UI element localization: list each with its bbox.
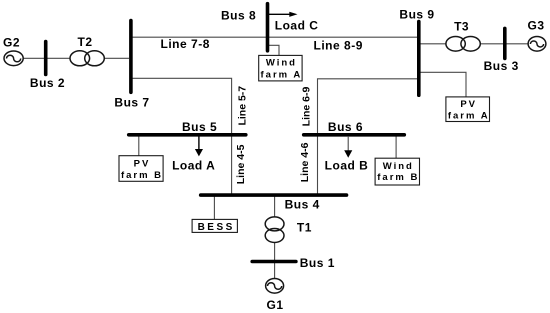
box wind farm A [259,55,303,81]
wire bus 9 to PV farm A [419,72,466,97]
svg-text:Bus 2: Bus 2 [30,76,65,90]
transformer T3 [446,37,480,52]
svg-text:Line 5-7: Line 5-7 [236,86,248,126]
wire bus 4 to BESS [213,195,215,219]
svg-text:Load A: Load A [172,159,215,173]
bus 3 [503,28,507,58]
svg-text:Line 6-9: Line 6-9 [301,87,313,127]
bus 6 [304,133,405,137]
bus 8 [266,4,270,51]
svg-text:Bus 1: Bus 1 [300,256,335,270]
svg-text:Line 7-8: Line 7-8 [161,37,210,51]
svg-text:Bus 3: Bus 3 [484,59,519,73]
generator G2 [4,51,23,66]
load A arrow [195,136,203,156]
svg-text:farm B: farm B [377,172,419,183]
wire T3 to bus 3 [480,43,503,45]
bus 1 [252,260,296,264]
wire line 4-5 [231,135,233,195]
svg-text:Line 4-6: Line 4-6 [299,142,311,182]
svg-text:G2: G2 [3,36,20,50]
svg-text:T1: T1 [297,221,312,235]
bus 2 [44,42,48,75]
box wind farm B [375,158,419,185]
svg-text:G1: G1 [266,298,283,312]
wire bus 4 to T1 [274,195,276,217]
svg-text:Bus 4: Bus 4 [285,198,320,212]
svg-text:T2: T2 [77,35,92,49]
svg-text:Bus 7: Bus 7 [114,95,149,109]
wire bus 6 to wind farm B [395,135,397,158]
box PV farm B [119,156,163,182]
wire bus 2 to T2 [47,57,70,59]
wire bus 9 to T3 [419,43,446,45]
svg-text:BESS: BESS [198,222,235,233]
svg-text:Load B: Load B [325,159,369,173]
svg-text:G3: G3 [527,19,544,33]
load B arrow [344,136,352,158]
wire bus 5 to PV farm B [138,135,140,156]
generator G3 [528,37,546,52]
svg-text:Line 8-9: Line 8-9 [314,38,363,52]
svg-text:farm A: farm A [261,69,303,80]
svg-text:Bus 6: Bus 6 [328,120,363,134]
svg-text:farm A: farm A [448,110,490,121]
transformer T2 [70,51,104,66]
wire T1 to G1 through bus 1 [274,242,276,279]
svg-text:Line 4-5: Line 4-5 [235,144,247,184]
wire bus 3 to G3 [507,43,529,45]
svg-text:farm B: farm B [121,170,163,181]
bus 7 [129,21,133,93]
bus 4 [201,193,347,197]
svg-text:Wind: Wind [266,58,297,69]
svg-text:Bus 5: Bus 5 [182,120,217,134]
svg-text:Bus 8: Bus 8 [221,9,256,23]
generator G1 [266,279,284,294]
wire line 5-7 [131,78,232,134]
wire line 6-9 [318,79,419,134]
svg-text:PV: PV [134,159,151,170]
transformer T1 [265,217,284,243]
svg-text:Wind: Wind [383,161,414,172]
wire G2 to bus 2 [24,57,45,59]
wire line 8-9 [268,36,419,38]
load C arrow [269,12,298,17]
bus 9 [417,22,421,96]
svg-text:T3: T3 [454,20,469,34]
svg-text:PV: PV [460,99,477,110]
svg-text:Load C: Load C [275,18,319,32]
bus 5 [129,133,246,137]
wire line 4-6 [317,135,319,195]
wire T2 to bus 7 [104,57,129,59]
wire bus 8 to wind farm A [268,45,280,55]
svg-text:Bus 9: Bus 9 [399,7,434,21]
box BESS [192,219,237,233]
wire line 7-8 [131,36,268,38]
box PV farm A [446,97,490,122]
